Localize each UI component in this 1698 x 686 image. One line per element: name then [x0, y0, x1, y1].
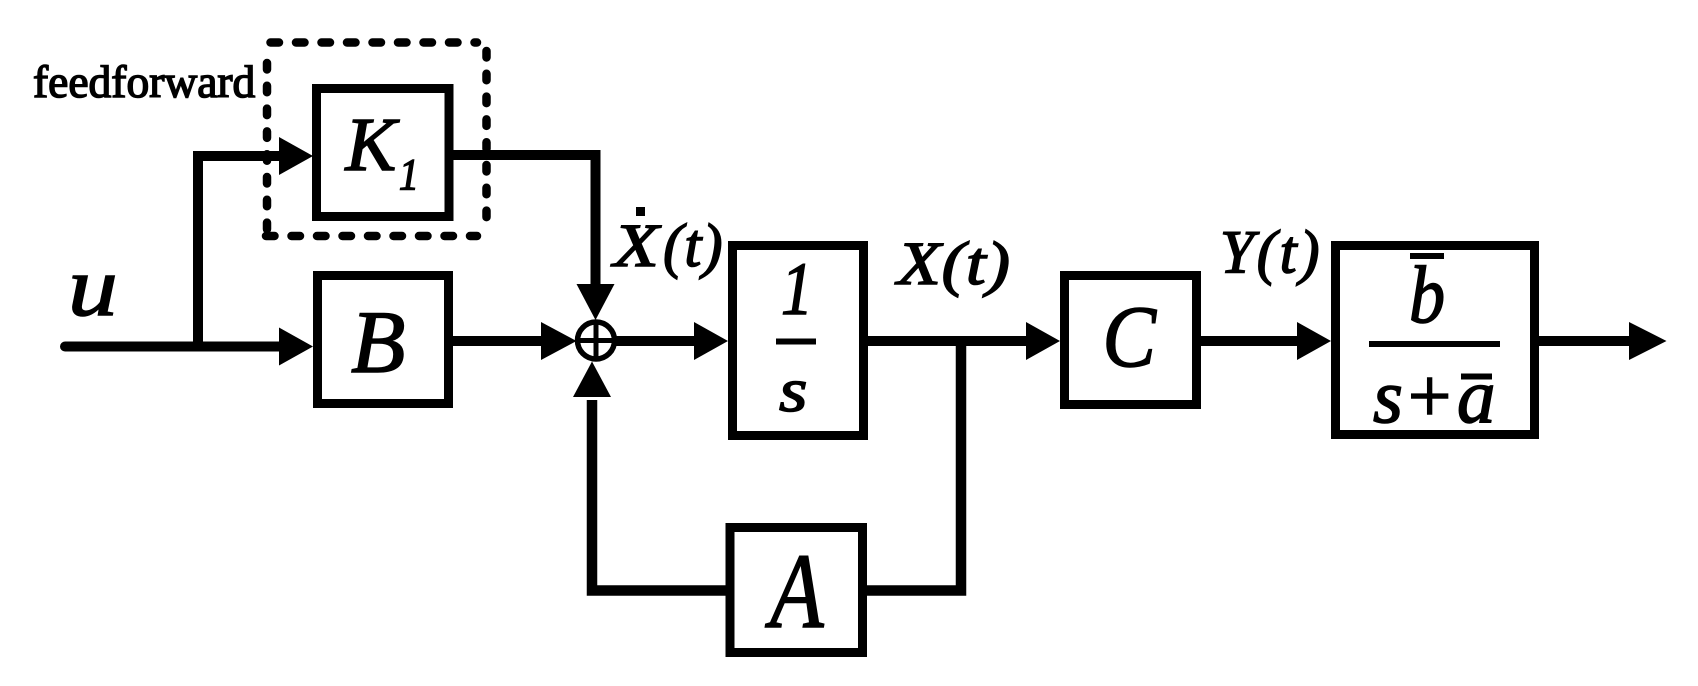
wire B output to summing junction	[449, 336, 543, 346]
arrowhead into C	[1026, 322, 1060, 360]
wire u input horizontal	[65, 342, 281, 352]
svg-text:feedforward: feedforward	[33, 56, 256, 107]
svg-text:K: K	[345, 103, 400, 187]
wire K1 output to summing junction	[449, 155, 596, 285]
wire into K1	[193, 151, 281, 161]
svg-text:B: B	[351, 294, 405, 392]
svg-text:a: a	[1457, 353, 1496, 439]
svg-text:s: s	[779, 356, 807, 425]
block 1/s integrator	[733, 246, 864, 436]
wire feedback: down from X(t) node, left, up into summing junction	[592, 336, 961, 591]
wire final output	[1535, 336, 1631, 346]
svg-text:1: 1	[399, 151, 419, 199]
block C	[1065, 276, 1197, 405]
svg-text:A: A	[765, 533, 825, 651]
dashed feedforward box	[266, 43, 487, 237]
arrowhead into B	[279, 328, 313, 366]
svg-text:Y(t): Y(t)	[1220, 220, 1322, 287]
wire C output to transfer block	[1197, 336, 1299, 346]
wire summing junction to integrator	[615, 336, 696, 346]
arrowhead into K1	[279, 137, 313, 175]
arrowhead into integrator	[694, 322, 728, 360]
wire integrator output to C	[864, 336, 1028, 346]
svg-text:u: u	[68, 241, 118, 335]
summing junction	[578, 322, 615, 359]
block B	[318, 276, 449, 404]
arrowhead down into summing junction	[577, 284, 615, 320]
svg-text:b: b	[1409, 249, 1445, 340]
wire branch vertical to K1	[193, 151, 203, 352]
svg-text:1: 1	[781, 248, 813, 331]
block K1	[317, 89, 450, 217]
svg-text:C: C	[1103, 289, 1157, 386]
svg-text:s+: s+	[1373, 353, 1455, 439]
svg-text:X: X	[610, 211, 661, 279]
block A	[730, 528, 863, 653]
block transfer function b/(s+a)	[1336, 246, 1535, 435]
arrowhead final output	[1629, 322, 1667, 360]
arrowhead into summing junction left	[541, 322, 577, 360]
svg-text:(t): (t)	[663, 213, 724, 280]
arrowhead up into summing junction bottom	[573, 362, 611, 398]
svg-text:X(t): X(t)	[894, 231, 1011, 298]
arrowhead into transfer block	[1297, 322, 1331, 360]
